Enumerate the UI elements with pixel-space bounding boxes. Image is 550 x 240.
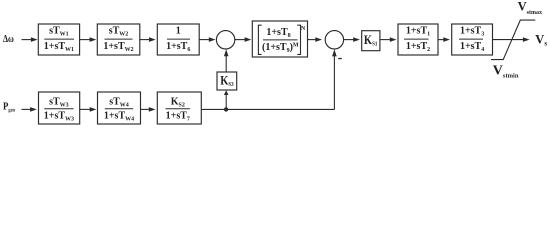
svg-text:Pgen: Pgen (3, 101, 15, 114)
svg-text:sTW2: sTW2 (109, 26, 129, 38)
svg-text:KS3: KS3 (220, 75, 234, 89)
svg-text:1: 1 (176, 26, 181, 37)
svg-text:1+sTW1: 1+sTW1 (44, 41, 74, 53)
svg-text:1+sT7: 1+sT7 (166, 111, 190, 123)
svg-text:1+sTW4: 1+sTW4 (104, 111, 134, 123)
svg-text:Vs: Vs (535, 32, 547, 47)
svg-text:1+sT6: 1+sT6 (166, 41, 190, 53)
svg-text:1+sT2: 1+sT2 (406, 41, 430, 53)
svg-text:N: N (301, 26, 306, 32)
svg-text:sTW1: sTW1 (49, 26, 69, 38)
svg-text:1+sTW3: 1+sTW3 (44, 111, 74, 123)
svg-text:1+sT4: 1+sT4 (460, 41, 484, 53)
svg-text:Δω: Δω (3, 33, 14, 44)
svg-text:1+sT1: 1+sT1 (406, 26, 430, 38)
svg-text:KS2: KS2 (171, 97, 185, 109)
svg-text:Vstmin: Vstmin (493, 63, 519, 79)
svg-text:1+sT3: 1+sT3 (460, 26, 484, 38)
svg-text:sTW4: sTW4 (109, 97, 129, 109)
svg-text:sTW3: sTW3 (49, 97, 69, 109)
svg-text:(1+sT9)M: (1+sT9)M (262, 42, 299, 54)
svg-text:KS1: KS1 (364, 34, 378, 48)
svg-text:Vstmax: Vstmax (518, 0, 542, 16)
svg-text:1+sT8: 1+sT8 (266, 27, 290, 39)
svg-text:1+sTW2: 1+sTW2 (103, 41, 133, 53)
